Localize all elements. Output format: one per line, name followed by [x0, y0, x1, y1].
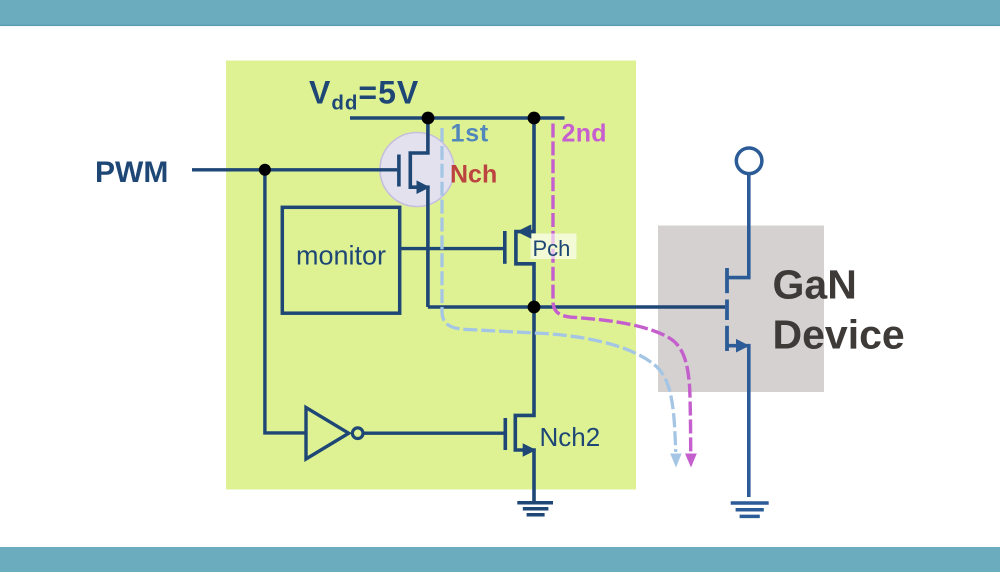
- top teal banner: [0, 0, 1000, 25]
- transistor Q3 Nch2 gate bar: [503, 418, 507, 450]
- node Vdd-Pch junction: [528, 112, 541, 125]
- top banner edge: [0, 25, 1000, 27]
- inverter U1 triangle: [306, 408, 349, 460]
- monitor box: [282, 207, 399, 313]
- svg-text:GaN: GaN: [773, 262, 857, 308]
- node Vdd-Nch junction: [422, 112, 435, 125]
- node PWM junction: [259, 164, 271, 176]
- Pch label background: [531, 234, 577, 260]
- svg-text:Device: Device: [773, 312, 905, 358]
- svg-text:1st: 1st: [451, 120, 490, 148]
- GaN source wire: [727, 346, 749, 497]
- GaN drain wire: [727, 174, 749, 278]
- ground for Nch2: [517, 503, 553, 515]
- ground for GaN source: [731, 503, 769, 516]
- dashed path 2nd (magenta): [553, 124, 691, 453]
- transistor Q2 Pch source arrow: [517, 225, 531, 239]
- wire PWM input: [192, 168, 397, 171]
- GaN drain terminal circle: [736, 148, 762, 174]
- transistor Q1 Nch source arrow: [417, 180, 431, 194]
- GaN device gray block: [658, 226, 824, 393]
- transistor Q1 Nch body: [410, 118, 428, 307]
- svg-text:monitor: monitor: [296, 241, 386, 271]
- transistor Q3 Nch2 body: [515, 307, 534, 502]
- svg-text:PWM: PWM: [95, 156, 168, 189]
- transistor Q2 Pch gate bar: [503, 231, 507, 264]
- wire monitor output to Pch gate: [400, 247, 504, 250]
- inverter U1 bubble: [352, 428, 363, 439]
- wire inverter output to Nch2 gate: [363, 432, 504, 435]
- transistor Q2 Pch body: [516, 118, 534, 307]
- transistor Q2 Pch source arrow (over label): [517, 225, 531, 239]
- highlight circle around Nch: [380, 133, 454, 207]
- GaN channel segment top: [725, 268, 729, 293]
- svg-text:Vdd=5V: Vdd=5V: [309, 75, 419, 115]
- svg-text:Pch: Pch: [533, 236, 571, 261]
- bottom teal banner: [0, 547, 1000, 572]
- node output junction: [528, 301, 541, 314]
- svg-text:2nd: 2nd: [562, 120, 607, 148]
- svg-text:Nch2: Nch2: [540, 422, 601, 452]
- GaN channel segment bottom: [725, 326, 729, 351]
- driver IC green block: [226, 61, 636, 490]
- wire Vdd rail: [350, 116, 565, 119]
- wire output node to GaN gate: [428, 305, 725, 308]
- GaN channel segment middle: [725, 300, 729, 321]
- transistor Q1 Nch gate bar: [397, 155, 401, 187]
- wire PWM branch down to inverter: [265, 170, 305, 433]
- transistor Q3 Nch2 source arrow: [523, 443, 537, 457]
- dashed path 1st (light blue): [442, 128, 676, 452]
- arrowhead 2nd: [685, 454, 697, 468]
- svg-text:Nch: Nch: [450, 161, 497, 189]
- GaN source arrow: [736, 339, 750, 353]
- arrowhead 1st: [670, 454, 681, 468]
